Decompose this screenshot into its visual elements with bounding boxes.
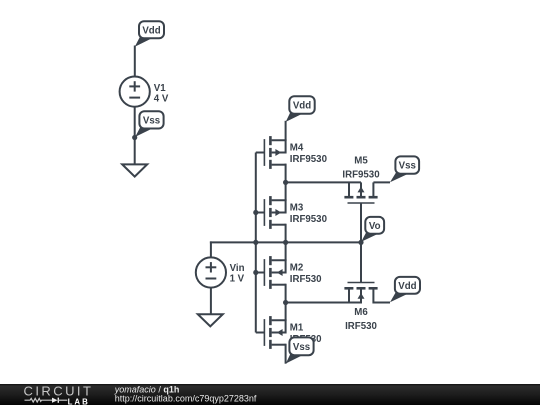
svg-text:M2: M2 (290, 263, 303, 274)
svg-text:CIRCUIT: CIRCUIT (24, 383, 94, 398)
svg-text:Vdd: Vdd (398, 281, 416, 292)
net label Vdd (V1+) (135, 21, 164, 47)
net label Vss (M1) (286, 337, 314, 363)
svg-text:IRF530: IRF530 (345, 321, 377, 332)
node junction (283, 300, 288, 305)
node junction (253, 240, 258, 245)
wire M4/M3 node to M5 (285, 181, 361, 183)
svg-text:M6: M6 (354, 307, 368, 318)
wire (285, 241, 287, 261)
wire M2/M1 node to M6 (285, 302, 361, 304)
voltage source V1 (120, 77, 150, 107)
wire M5 source to Vss tag (373, 181, 390, 183)
ground GND1 (122, 164, 147, 176)
wire gate bus (255, 153, 257, 333)
wire M5 gate to Vo node (360, 203, 362, 243)
wire (285, 344, 287, 364)
svg-text:Vdd: Vdd (142, 25, 160, 36)
svg-text:M5: M5 (354, 156, 368, 167)
logo resistor symbol (25, 398, 53, 402)
wire Vin node (210, 241, 361, 243)
wire M6 source to Vdd tag (373, 302, 390, 304)
svg-text:M3: M3 (290, 203, 304, 214)
transistor M5 (IRF9530) (344, 182, 377, 203)
svg-text:Vo: Vo (369, 221, 381, 232)
wire (134, 106, 136, 164)
wire (285, 224, 287, 243)
svg-text:Vss: Vss (399, 161, 416, 172)
transistor M6 (IRF530) (344, 283, 377, 304)
svg-text:4 V: 4 V (154, 94, 169, 105)
svg-text:V1: V1 (154, 83, 166, 94)
wire (285, 121, 287, 141)
wire (210, 241, 212, 258)
svg-text:IRF530: IRF530 (290, 274, 322, 285)
svg-text:LAB: LAB (68, 397, 90, 405)
net label Vss (V1-) (135, 111, 163, 137)
voltage source Vin (196, 257, 226, 287)
transistor M1 (IRF530) (256, 316, 286, 349)
svg-text:IRF9530: IRF9530 (342, 169, 379, 180)
svg-text:http://circuitlab.com/c79qyp27: http://circuitlab.com/c79qyp27283nf (115, 393, 257, 403)
svg-text:Vss: Vss (143, 115, 160, 126)
node junction (253, 210, 258, 215)
svg-text:Vss: Vss (293, 342, 310, 353)
transistor M4 (IRF9530) (256, 136, 286, 169)
node junction (253, 270, 258, 275)
svg-text:IRF9530: IRF9530 (290, 154, 327, 165)
wire (285, 301, 287, 321)
svg-text:M1: M1 (290, 323, 304, 334)
ground GND2 (198, 314, 223, 326)
node Vo (358, 240, 363, 245)
node junction (283, 180, 288, 185)
svg-text:IRF9530: IRF9530 (290, 214, 327, 225)
svg-text:1 V: 1 V (230, 273, 245, 284)
wire (285, 284, 287, 303)
net label Vdd (M4 source) (286, 96, 315, 122)
logo diode symbol (52, 398, 58, 403)
wire (285, 164, 287, 183)
svg-text:Vin: Vin (230, 263, 245, 274)
wire (134, 46, 136, 78)
transistor M3 (IRF9530) (256, 196, 286, 229)
svg-text:Vdd: Vdd (293, 101, 311, 112)
transistor M2 (IRF530) (256, 256, 286, 289)
net label Vss (M5) (390, 156, 419, 182)
node Vss tap (132, 135, 137, 140)
wire (285, 181, 287, 201)
net label Vo (361, 217, 384, 242)
wire Vo node to M6 gate (360, 241, 362, 282)
node junction (283, 240, 288, 245)
net label Vdd (M6) (390, 277, 420, 302)
svg-text:M4: M4 (290, 143, 304, 154)
wire (210, 287, 212, 314)
